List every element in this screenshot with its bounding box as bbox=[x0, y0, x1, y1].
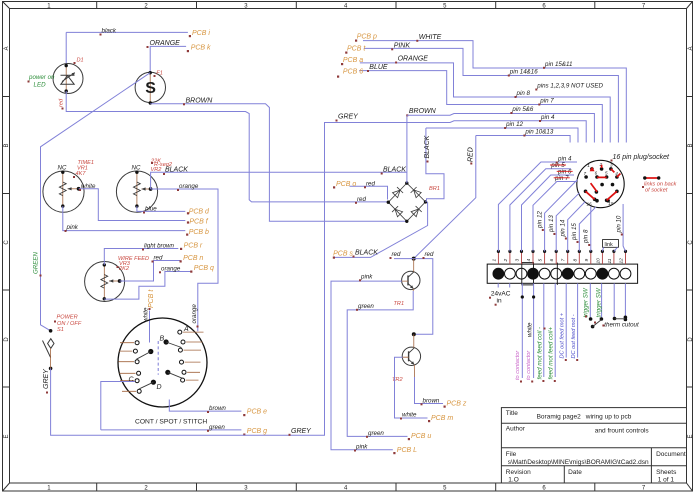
svg-text:power on: power on bbox=[28, 74, 55, 81]
svg-text:2K2: 2K2 bbox=[118, 266, 130, 272]
svg-text:pin 15: pin 15 bbox=[571, 223, 578, 241]
rotary right contact stubs bbox=[183, 332, 204, 380]
svg-text:orange: orange bbox=[179, 183, 199, 190]
stub WHITE row from PCB p bbox=[363, 41, 626, 143]
rotary wiper dots and levers bbox=[164, 339, 169, 344]
svg-text:PCB e: PCB e bbox=[247, 409, 267, 416]
wire rotary contact C to left vertical bbox=[101, 382, 135, 430]
svg-text:pin 7: pin 7 bbox=[554, 175, 569, 182]
svg-text:to contactor: to contactor bbox=[515, 350, 521, 380]
junction node above TR2 bbox=[412, 332, 416, 336]
wire BR1 right node loop to pin 12 vertical bbox=[426, 128, 445, 202]
svg-text:7: 7 bbox=[561, 259, 567, 262]
svg-text:File: File bbox=[506, 451, 517, 458]
wire green row to PCB g bbox=[101, 429, 242, 431]
svg-text:pin 10&13: pin 10&13 bbox=[524, 129, 553, 136]
svg-text:pin 14&16: pin 14&16 bbox=[509, 69, 538, 76]
svg-text:PCB i: PCB i bbox=[192, 30, 210, 37]
svg-text:D: D bbox=[4, 337, 10, 342]
frame row letters left bbox=[4, 46, 10, 438]
svg-text:PCB m: PCB m bbox=[431, 415, 453, 422]
svg-text:PCB f: PCB f bbox=[189, 219, 208, 226]
stub BLUE row from PCB 6 bbox=[359, 71, 602, 143]
socket pins row1 bbox=[590, 167, 594, 171]
svg-text:red: red bbox=[154, 255, 164, 262]
svg-text:Date: Date bbox=[568, 469, 582, 476]
svg-text:feed mot feed coil+: feed mot feed coil+ bbox=[548, 327, 555, 380]
svg-text:WHITE: WHITE bbox=[419, 34, 442, 41]
wire BROWN vertical into BR1 top node bbox=[406, 115, 408, 183]
svg-text:therm cutout: therm cutout bbox=[604, 321, 639, 328]
svg-text:feed mot feed coil -: feed mot feed coil - bbox=[536, 327, 543, 380]
svg-text:to contactor: to contactor bbox=[526, 350, 532, 380]
svg-text:15: 15 bbox=[608, 201, 614, 206]
wire terminal6 pin13 diagonal bbox=[556, 193, 579, 252]
svg-text:GREEN: GREEN bbox=[33, 251, 40, 274]
svg-text:red: red bbox=[425, 251, 435, 258]
svg-text:pin 7: pin 7 bbox=[539, 98, 554, 105]
svg-text:Author: Author bbox=[506, 426, 526, 433]
svg-text:PCB t: PCB t bbox=[347, 45, 366, 52]
svg-text:BROWN: BROWN bbox=[409, 108, 437, 115]
svg-text:TR2: TR2 bbox=[392, 377, 403, 383]
wire TR2 emitter brown row to PCB z bbox=[415, 377, 444, 404]
wire BROWN row to pin 5&6 bbox=[407, 114, 595, 143]
svg-text:red: red bbox=[366, 180, 376, 187]
svg-text:A: A bbox=[183, 326, 189, 333]
svg-text:S: S bbox=[145, 80, 156, 97]
transistor TR1 bbox=[402, 271, 420, 289]
svg-text:1: 1 bbox=[491, 259, 497, 262]
svg-text:link: link bbox=[605, 242, 614, 248]
wires terminal 1,2 bottom stubs bbox=[498, 283, 510, 287]
svg-text:LED: LED bbox=[34, 82, 47, 89]
wire terminal2 to pin5 bbox=[510, 169, 571, 252]
wire feed mot feed coil + bbox=[554, 283, 556, 377]
svg-text:PCB 6: PCB 6 bbox=[343, 68, 363, 75]
svg-text:GREY: GREY bbox=[43, 368, 50, 389]
svg-text:pin 8: pin 8 bbox=[583, 229, 590, 244]
svg-text:2: 2 bbox=[503, 259, 509, 263]
svg-text:8: 8 bbox=[572, 259, 578, 262]
transistor TR2 bbox=[402, 347, 420, 365]
svg-text:PCB b: PCB b bbox=[189, 229, 209, 236]
potentiometer VR1 TIME1 bbox=[43, 171, 84, 212]
wire terminal9 pin8 vertical bbox=[590, 207, 592, 252]
wire pink row to TR1 base and PCB L bbox=[331, 281, 402, 450]
svg-text:TR1: TR1 bbox=[394, 301, 405, 307]
frame column numbers bottom bbox=[47, 486, 646, 492]
wire orange row from VR2 wiper to rotary contact A bbox=[151, 189, 218, 331]
therm cutout link terminals 11-12 bbox=[614, 283, 625, 317]
svg-text:B: B bbox=[4, 143, 10, 147]
svg-text:1: 1 bbox=[587, 163, 590, 168]
svg-text:6: 6 bbox=[549, 259, 555, 262]
svg-text:24vAC: 24vAC bbox=[491, 291, 511, 298]
svg-text:D: D bbox=[157, 384, 162, 391]
svg-text:PCB d: PCB d bbox=[189, 209, 210, 216]
svg-text:D1: D1 bbox=[77, 58, 84, 64]
wire red row VR3 wiper to PCB n bbox=[120, 261, 181, 282]
svg-text:pin 14: pin 14 bbox=[559, 219, 566, 237]
wire terminal1 up-diagonal to socket pin4 bbox=[498, 162, 577, 251]
svg-text:orange: orange bbox=[161, 265, 181, 272]
svg-text:and frount controls: and frount controls bbox=[595, 427, 650, 434]
svg-text:pin 12: pin 12 bbox=[536, 211, 543, 229]
rotary right contacts bbox=[178, 330, 186, 382]
svg-text:1 of 1: 1 of 1 bbox=[658, 476, 675, 483]
trigger SW switch terminals 9-10 bbox=[590, 283, 601, 317]
svg-text:16 pin plug/socket: 16 pin plug/socket bbox=[613, 154, 670, 161]
svg-text:pin 5&6: pin 5&6 bbox=[511, 106, 534, 113]
wire white row from VR1 wiper to PCB f bbox=[79, 189, 186, 221]
svg-text:Document: Document bbox=[656, 451, 686, 458]
frame row ticks left bbox=[3, 97, 10, 388]
wire DC out feed mot + bbox=[565, 283, 567, 357]
svg-text:BLUE: BLUE bbox=[369, 64, 388, 71]
svg-text:BLACK: BLACK bbox=[165, 167, 188, 174]
svg-text:green: green bbox=[209, 424, 225, 431]
wire orange row VR3 bottom to PCB q bbox=[104, 272, 190, 300]
svg-text:brown: brown bbox=[209, 405, 226, 412]
svg-text:F1: F1 bbox=[156, 71, 163, 77]
LED D1 bbox=[53, 64, 83, 94]
svg-text:pink: pink bbox=[355, 444, 368, 451]
svg-text:4K7: 4K7 bbox=[76, 171, 87, 177]
svg-text:BR1: BR1 bbox=[429, 186, 440, 192]
svg-text:E: E bbox=[688, 434, 694, 438]
wire BLACK row from VR2 wiper to BR1 top bbox=[151, 172, 407, 189]
svg-text:NC: NC bbox=[58, 165, 67, 172]
wire terminal5 pin12 diagonal bbox=[545, 180, 578, 252]
socket pins row2 bbox=[584, 175, 588, 179]
wire ORANGE row from F1 top bbox=[150, 46, 186, 71]
svg-text:PCB p: PCB p bbox=[357, 33, 377, 40]
svg-text:Boramig page2: Boramig page2 bbox=[537, 414, 581, 421]
svg-text:D: D bbox=[688, 337, 694, 342]
svg-text:NC: NC bbox=[132, 165, 141, 172]
frame column numbers top bbox=[47, 3, 646, 9]
sample link on back of socket bbox=[646, 177, 659, 179]
svg-text:4: 4 bbox=[526, 259, 532, 262]
svg-text:E: E bbox=[4, 434, 10, 438]
potentiometer VR3 WIRE FEED bbox=[85, 262, 125, 302]
wire BROWN row from F1 bottom to BR1 bottom bbox=[150, 104, 407, 222]
rotary dashed shaft line bbox=[157, 341, 159, 375]
svg-text:Revision: Revision bbox=[506, 469, 531, 476]
svg-text:GREY: GREY bbox=[338, 113, 359, 120]
svg-text:orange: orange bbox=[191, 304, 198, 324]
wire green row to TR1 emitter and PCB u bbox=[347, 291, 413, 436]
svg-text:12: 12 bbox=[619, 258, 625, 264]
terminal strip bbox=[487, 264, 637, 283]
stub wire white / PCB t to rotary contact B bbox=[149, 311, 151, 343]
svg-text:9: 9 bbox=[584, 259, 590, 262]
svg-text:GREY: GREY bbox=[291, 428, 312, 435]
svg-text:pin 12: pin 12 bbox=[505, 121, 523, 128]
wire LED bottom red row to BR1 left node bbox=[66, 91, 388, 202]
svg-text:red: red bbox=[357, 196, 367, 203]
svg-text:white: white bbox=[81, 183, 96, 190]
svg-text:7: 7 bbox=[584, 171, 587, 176]
svg-text:B: B bbox=[688, 143, 694, 147]
svg-text:DC out feed mot -: DC out feed mot - bbox=[571, 314, 577, 358]
svg-text:PCB o: PCB o bbox=[336, 181, 356, 188]
wire feed mot feed coil - bbox=[543, 283, 545, 377]
svg-text:PCB q: PCB q bbox=[194, 265, 214, 272]
svg-text:PINK: PINK bbox=[394, 42, 411, 49]
svg-text:PCB t: PCB t bbox=[148, 289, 155, 308]
svg-text:PCB s: PCB s bbox=[333, 250, 353, 257]
wire terminal12 pin10 bbox=[623, 204, 625, 251]
svg-text:A: A bbox=[688, 46, 694, 50]
svg-text:pink: pink bbox=[66, 224, 79, 231]
svg-text:BLACK: BLACK bbox=[355, 250, 378, 257]
svg-text:PCB g: PCB g bbox=[247, 428, 267, 435]
svg-text:white: white bbox=[527, 322, 534, 337]
svg-text:pin 13: pin 13 bbox=[548, 215, 555, 233]
svg-text:PCB z: PCB z bbox=[447, 400, 467, 407]
svg-text:s\Matt\Desktop\MINE\migs\BORAM: s\Matt\Desktop\MINE\migs\BORAMIG\tCad2.d… bbox=[508, 459, 649, 466]
svg-text:wiring up to pcb: wiring up to pcb bbox=[585, 414, 632, 421]
socket pins bottom bbox=[584, 190, 588, 194]
svg-text:pin 10: pin 10 bbox=[615, 215, 622, 233]
power switch S1 bbox=[49, 329, 53, 333]
wire terminal3 to pin6 bbox=[522, 175, 575, 251]
svg-text:green: green bbox=[358, 303, 374, 310]
svg-text:pin 8: pin 8 bbox=[516, 90, 531, 97]
svg-text:PCB k: PCB k bbox=[191, 45, 211, 52]
link box to terminals 10 and 11 bbox=[603, 240, 619, 248]
stub PCB o red row into BR1 left node bbox=[350, 186, 388, 199]
svg-text:C: C bbox=[4, 240, 10, 245]
svg-text:pins 1,2,3,9 NOT USED: pins 1,2,3,9 NOT USED bbox=[536, 83, 603, 90]
socket red links bbox=[590, 167, 595, 172]
svg-text:blue: blue bbox=[145, 206, 157, 213]
frame row ticks right bbox=[687, 97, 693, 388]
svg-text:green: green bbox=[368, 430, 384, 437]
svg-text:5: 5 bbox=[538, 259, 544, 262]
rotary left contacts bbox=[133, 341, 141, 394]
svg-text:pink: pink bbox=[360, 273, 373, 280]
svg-text:CONT / SPOT / STITCH: CONT / SPOT / STITCH bbox=[135, 419, 207, 426]
wire to contactor 1 bbox=[521, 283, 523, 378]
wire PCB s BLACK diagonal to BR1 right node bbox=[334, 202, 428, 258]
wire pin 12 row bbox=[426, 128, 578, 143]
rotated pin labels below socket bbox=[536, 211, 622, 244]
svg-text:PCB a: PCB a bbox=[343, 57, 363, 64]
svg-text:DC out feed mot +: DC out feed mot + bbox=[560, 312, 566, 358]
wire pin 10&13 row bbox=[476, 136, 570, 143]
wire terminal8 pin15 diagonal bbox=[579, 207, 596, 252]
bridge rectifier BR1 bbox=[388, 183, 425, 221]
svg-text:3: 3 bbox=[610, 163, 613, 168]
stub PINK row from PCB t bbox=[364, 48, 619, 142]
16 pin plug/socket circle bbox=[577, 160, 624, 207]
potentiometer VR2 22K bbox=[116, 171, 157, 212]
frame column ticks top bbox=[97, 2, 595, 9]
svg-text:RED: RED bbox=[468, 147, 475, 162]
svg-text:6: 6 bbox=[595, 171, 598, 176]
svg-text:5: 5 bbox=[605, 170, 608, 175]
svg-text:pin 4: pin 4 bbox=[540, 114, 555, 121]
wire DC out feed mot - bbox=[577, 283, 579, 357]
svg-text:PCB n: PCB n bbox=[183, 255, 203, 262]
svg-text:1.O: 1.O bbox=[508, 476, 518, 483]
wire diagonal F1 top to green vertical and S1 bbox=[41, 73, 151, 331]
overlay box on terminal 4 bbox=[522, 263, 534, 285]
svg-text:PCB u: PCB u bbox=[411, 433, 431, 440]
svg-text:11: 11 bbox=[607, 258, 613, 263]
divider line between terminals 6 and 7 bbox=[556, 263, 558, 285]
svg-text:PCB r: PCB r bbox=[184, 243, 203, 250]
svg-text:3: 3 bbox=[515, 259, 521, 262]
frame row letters right bbox=[688, 46, 694, 438]
wire S1 bottom to GREY row bbox=[51, 121, 587, 436]
wire to contactor 2 / white bbox=[533, 283, 535, 378]
wire blue row VR2 bottom to PCB d bbox=[137, 206, 185, 211]
svg-text:B: B bbox=[160, 336, 165, 343]
svg-text:black: black bbox=[102, 28, 117, 35]
svg-text:ORANGE: ORANGE bbox=[398, 56, 429, 63]
svg-text:trigger SW: trigger SW bbox=[595, 287, 602, 317]
wire brown row rotary D to PCB e bbox=[169, 400, 241, 412]
socket pins row3 bbox=[600, 183, 604, 187]
frame column ticks bottom bbox=[97, 483, 595, 491]
terminal top dots and red ticks bbox=[498, 251, 625, 264]
svg-text:A: A bbox=[4, 46, 10, 50]
svg-text:10: 10 bbox=[595, 258, 601, 264]
wire RED vertical and diagonal to TR1 junction bbox=[414, 136, 476, 259]
svg-text:in: in bbox=[497, 298, 502, 305]
svg-text:trigger SW: trigger SW bbox=[583, 287, 590, 317]
svg-text:Title: Title bbox=[506, 410, 518, 417]
svg-text:brown: brown bbox=[423, 397, 440, 404]
svg-text:BLACK: BLACK bbox=[383, 166, 406, 173]
svg-text:red: red bbox=[59, 98, 65, 107]
svg-text:light brown: light brown bbox=[144, 243, 174, 250]
wire TR2 base white row to PCB m bbox=[395, 357, 428, 418]
wire terminal4 to pin7 bbox=[533, 182, 577, 252]
svg-text:S1: S1 bbox=[57, 327, 64, 333]
wire light brown row VR3 top to PCB r bbox=[104, 249, 178, 265]
title block bbox=[501, 408, 686, 483]
svg-text:Sheets: Sheets bbox=[656, 469, 677, 476]
svg-text:pin 15&11: pin 15&11 bbox=[544, 61, 572, 68]
svg-text:16: 16 bbox=[587, 202, 593, 207]
svg-text:of socket: of socket bbox=[645, 188, 668, 194]
wire black row from LED top to PCB i bbox=[66, 32, 188, 65]
svg-text:white: white bbox=[402, 412, 417, 419]
fuse F1 bbox=[135, 72, 165, 102]
junction node red above TR1 bbox=[412, 257, 416, 261]
svg-text:BLACK: BLACK bbox=[424, 135, 431, 158]
svg-text:red: red bbox=[392, 251, 402, 258]
rotary switch CONT/SPOT/STITCH bbox=[118, 318, 207, 407]
svg-text:C: C bbox=[688, 240, 694, 245]
terminal numbers 1-12 rotated bbox=[491, 258, 624, 264]
svg-text:POWER: POWER bbox=[57, 315, 78, 321]
wire pink row from VR1 bottom to PCB b bbox=[63, 206, 186, 231]
svg-text:PCB L: PCB L bbox=[397, 447, 417, 454]
rotary left contact stubs bbox=[119, 343, 137, 392]
wire terminal7 pin14 diagonal bbox=[568, 202, 586, 252]
svg-text:BROWN: BROWN bbox=[186, 98, 214, 105]
stub ORANGE row from PCB a bbox=[360, 63, 610, 143]
